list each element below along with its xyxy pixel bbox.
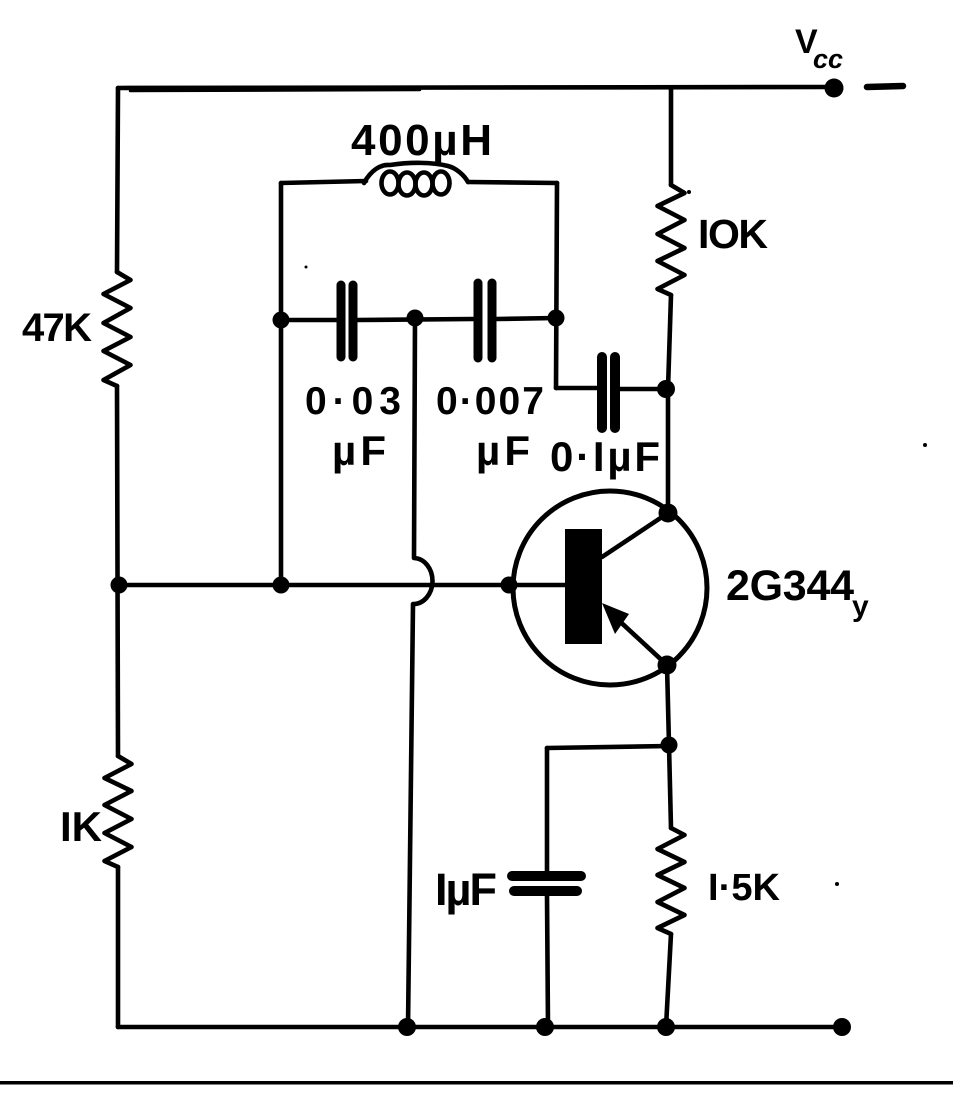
svg-text:0·03: 0·03	[305, 380, 401, 423]
wire tank left vertical	[279, 183, 284, 585]
node dot 0.1uF right	[657, 380, 675, 398]
node Vcc terminal dot	[825, 79, 844, 98]
node dot tank-base junction	[273, 577, 290, 594]
transistor Q1 base bar	[565, 529, 602, 644]
wire 0.1uF lead right	[620, 387, 666, 392]
wire cap row segment 1	[281, 318, 337, 323]
node dot bottom rail 3	[657, 1018, 675, 1036]
wire 0.1uF lead left	[556, 386, 598, 391]
svg-text:47K: 47K	[22, 306, 92, 350]
inductor L1 400uH coil	[382, 172, 399, 195]
node dot bottom rail end	[833, 1018, 851, 1036]
node dot emitter branch	[661, 737, 678, 754]
wire 1.5K top lead	[669, 745, 671, 828]
wire right vertical mid to collector	[668, 295, 671, 513]
capacitor C3 0.1uF	[597, 357, 607, 428]
node dot emitter	[658, 656, 677, 675]
capacitor C4 1uF	[512, 871, 581, 881]
node dot bottom rail 1	[398, 1018, 416, 1036]
wire cap row segment 3	[496, 318, 556, 319]
svg-text:IK: IK	[60, 803, 102, 850]
wire emitter down	[667, 665, 669, 745]
transistor Q1 base lead	[509, 583, 565, 588]
svg-text:400µH: 400µH	[351, 116, 492, 165]
capacitor C2 0.007uF	[474, 283, 483, 358]
wire 1uF top lead	[545, 748, 550, 871]
speck 1	[305, 266, 308, 269]
svg-text:0·007: 0·007	[436, 380, 544, 423]
speck 4	[687, 190, 691, 194]
node dot cap row left	[273, 312, 290, 329]
resistor 47K	[104, 272, 131, 386]
wire Vcc dash	[867, 86, 903, 87]
speck 3	[835, 882, 839, 886]
svg-text:IOK: IOK	[698, 211, 768, 257]
wire left vertical lower	[116, 867, 121, 1027]
svg-text:y: y	[852, 590, 869, 623]
wire tank top right segment	[468, 182, 557, 183]
speck 2	[923, 443, 927, 447]
bottom page rule	[0, 1081, 953, 1085]
node dot base rail left	[111, 577, 128, 594]
wire cap row segment 2	[357, 319, 473, 320]
resistor 1K	[105, 756, 132, 867]
node dot collector	[659, 504, 678, 523]
wire left vertical middle	[117, 386, 118, 756]
node dot cap row right	[548, 310, 565, 327]
svg-text:IµF: IµF	[435, 864, 497, 915]
wire 1uF bottom lead	[547, 896, 548, 1027]
wire emitter branch horizontal	[547, 746, 669, 748]
wire left vertical upper	[117, 88, 118, 272]
transistor Q1 circle	[513, 491, 707, 685]
wire right vertical top	[669, 88, 674, 185]
wire mid vertical with hop over base wire	[408, 318, 432, 1027]
wire 1.5K bottom lead	[666, 934, 671, 1027]
svg-text:cc: cc	[813, 44, 843, 74]
svg-text:2G344: 2G344	[726, 562, 854, 610]
node dot bottom rail 2	[536, 1018, 554, 1036]
transistor Q1 emitter lead	[614, 616, 667, 665]
resistor 10K	[658, 185, 685, 295]
transistor Q1 collector lead	[602, 513, 668, 557]
wire top Vcc rail	[118, 87, 834, 88]
wire bottom ground rail	[118, 1025, 842, 1030]
wire tank right vertical	[556, 183, 557, 388]
wire base horizontal	[119, 583, 509, 588]
resistor 1.5K	[658, 828, 685, 934]
svg-text:I·5K: I·5K	[708, 867, 781, 909]
node dot transistor base	[501, 577, 518, 594]
node dot cap row mid	[407, 310, 424, 327]
wire tank top left segment	[281, 181, 366, 183]
capacitor C1 0.03uF	[337, 285, 346, 357]
transistor Q1 emitter arrowhead	[602, 603, 629, 634]
